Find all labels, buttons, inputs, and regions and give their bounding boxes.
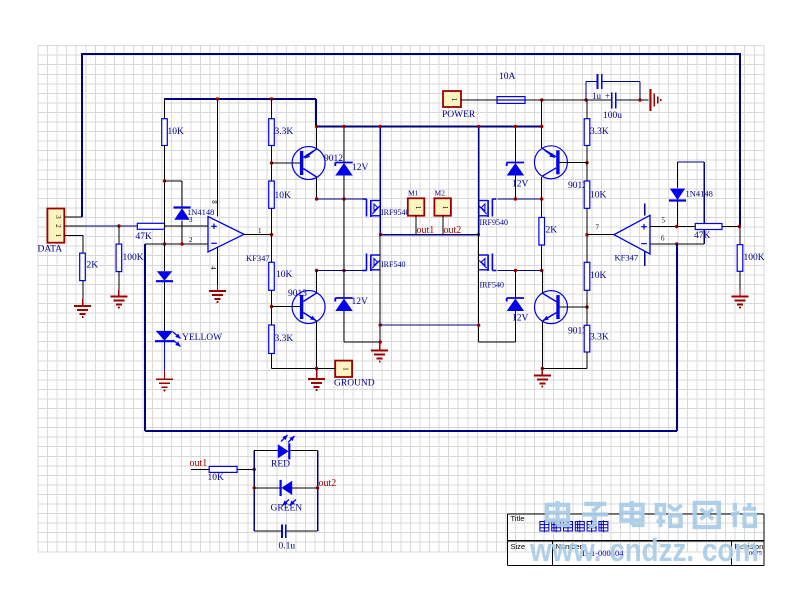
junction Q1 base node <box>270 161 273 164</box>
resistor 10K bottom <box>208 466 238 483</box>
wire U2 power stubs <box>644 203 646 266</box>
MOSFET IRF540 right <box>479 254 504 290</box>
svg-text:IRF540: IRF540 <box>480 281 504 290</box>
svg-text:7: 7 <box>596 224 600 232</box>
svg-text:Title: Title <box>511 514 525 523</box>
svg-text:100u: 100u <box>603 111 622 121</box>
wire diode to LED <box>164 282 166 331</box>
ground left bridge <box>308 369 325 392</box>
wire 3.3K to base node <box>271 146 273 182</box>
wire pin6 row <box>650 243 704 245</box>
svg-text:out1: out1 <box>417 225 435 236</box>
svg-text:0.1u: 0.1u <box>279 542 296 552</box>
wire pin3 row <box>165 225 209 227</box>
ground below 100K <box>110 290 127 309</box>
wire LED box right <box>317 450 319 531</box>
resistor 3.3K upper-right <box>584 119 609 146</box>
wire 3.3K to ground row <box>272 354 317 369</box>
junction Q3 base node <box>585 161 588 164</box>
junction pin2-10K <box>163 242 166 245</box>
ground sources <box>371 342 388 363</box>
wire LED to ground <box>164 342 166 370</box>
power ground symbol <box>651 89 662 111</box>
wire 100K right to ground <box>739 271 741 289</box>
wire pin8 power <box>217 99 219 217</box>
wire GREEN branch <box>254 487 317 489</box>
wire diode to pin5 <box>677 202 679 227</box>
junction gate2 x541 <box>540 269 543 272</box>
svg-text:2K: 2K <box>546 226 558 236</box>
svg-text:47K: 47K <box>694 231 711 241</box>
svg-text:10K: 10K <box>168 127 185 137</box>
wire fuse to +12V node <box>525 99 542 101</box>
wire +12V node to capacitors <box>542 99 586 101</box>
wire Q3 base row <box>559 162 587 164</box>
resistor 100K right <box>737 245 765 272</box>
wire Q4 collector up <box>541 271 543 293</box>
wire M1 pin <box>415 216 417 235</box>
diode 1N4148 right <box>669 189 686 201</box>
junction diode branch <box>163 179 166 182</box>
capacitor C 1u <box>598 74 602 89</box>
wire feedback loop <box>145 244 677 431</box>
wire diode branch <box>165 181 183 207</box>
junction rail x478 <box>477 125 480 128</box>
ground below 100K right <box>732 289 749 309</box>
wire 10K to U2 output <box>586 208 588 262</box>
wire 3.3K top stub <box>271 99 273 119</box>
MOSFET IRF9540 right <box>479 199 508 227</box>
wire drain column upper <box>379 127 381 235</box>
fuse 10A <box>497 97 525 104</box>
wire +12V rail lower <box>316 126 542 128</box>
svg-text:10A: 10A <box>499 72 516 82</box>
wire zener1 to gate row <box>343 176 345 200</box>
wire M2 pin <box>442 216 444 235</box>
junction Q2 base node <box>270 305 273 308</box>
wire zener4 bottom <box>514 311 516 342</box>
transistor Q4 9013 <box>535 291 568 324</box>
wire 100K stub <box>118 226 120 244</box>
junction ground node right <box>541 367 544 370</box>
svg-text:3.3K: 3.3K <box>590 127 609 137</box>
wire DATA pin2 <box>64 225 84 227</box>
junction border-47K <box>738 225 741 228</box>
junction pin6-loop <box>675 242 678 245</box>
wire gate row P-left <box>317 198 363 200</box>
title block frame <box>508 514 765 566</box>
svg-text:KF347: KF347 <box>615 253 639 263</box>
wire zener4 stub <box>514 271 516 298</box>
svg-text:10K: 10K <box>275 191 292 201</box>
resistor 10K upper-left <box>269 181 291 208</box>
svg-text:KF347: KF347 <box>246 253 270 263</box>
svg-text:1N4148: 1N4148 <box>686 189 713 199</box>
resistor 10K feedback <box>162 119 168 146</box>
junction pin2-diode <box>180 242 183 245</box>
wire 47K to border <box>722 226 740 228</box>
wire Q4 emitter down <box>541 321 543 368</box>
junction out2 node <box>316 486 319 489</box>
wire to plain diode <box>164 244 166 271</box>
wire Q2 collector up <box>316 271 318 293</box>
wire 100u row <box>586 99 649 101</box>
wire 100K right stub <box>739 227 741 245</box>
svg-text:8: 8 <box>210 200 218 204</box>
resistor 47K right <box>694 224 722 242</box>
transistor Q3 9012 <box>534 146 567 179</box>
junction cap node <box>584 98 587 101</box>
junction rail x515 <box>514 125 517 128</box>
wire out1 row <box>380 234 479 236</box>
svg-text:GREEN: GREEN <box>271 504 303 514</box>
wire GROUND pin <box>317 368 336 370</box>
wire zener3 to gate row <box>514 176 516 200</box>
wire Q1 emitter up <box>316 127 318 149</box>
wire 2K to ground <box>82 281 84 299</box>
svg-text:IRF9540: IRF9540 <box>381 208 409 217</box>
junction gate row x344 <box>342 197 345 200</box>
junction gate row x541 <box>540 197 543 200</box>
wire gate row P-right <box>498 198 542 200</box>
resistor 100K left <box>116 244 144 272</box>
svg-text:10K: 10K <box>208 473 225 483</box>
wire Q2 emitter down <box>316 322 318 369</box>
resistor 10K lower-right <box>584 262 606 290</box>
svg-text:out2: out2 <box>319 478 337 489</box>
zener D 12V upper-left <box>335 163 352 176</box>
junction source gnd x380 <box>379 340 382 343</box>
wire zener1 stub <box>343 127 345 163</box>
junction pin5-diode <box>675 225 678 228</box>
svg-text:1: 1 <box>258 227 262 235</box>
svg-text:POWER: POWER <box>442 110 476 120</box>
junction gate2 row x344 <box>342 269 345 272</box>
svg-text:RED: RED <box>271 460 290 470</box>
diode D plain <box>156 271 173 281</box>
svg-text:10K: 10K <box>590 191 607 201</box>
svg-text:M2: M2 <box>435 189 446 198</box>
svg-text:6: 6 <box>661 235 665 243</box>
resistor 3.3K upper-left <box>269 119 294 146</box>
svg-text:2: 2 <box>189 236 193 244</box>
svg-text:47K: 47K <box>136 232 153 242</box>
schematic title text <box>540 520 608 532</box>
svg-text:3: 3 <box>54 215 62 219</box>
svg-text:3.3K: 3.3K <box>275 334 294 344</box>
wire zener2 to ground row <box>344 311 380 342</box>
wire 10K to box <box>237 468 254 470</box>
resistor 2K right <box>539 218 557 246</box>
junction +12V node <box>540 98 543 101</box>
capacitor C 0.1u <box>282 525 286 539</box>
junction Q4 base node <box>585 305 588 308</box>
connector M1 <box>408 198 425 215</box>
connector M2 <box>434 198 451 215</box>
svg-text:IRF540: IRF540 <box>381 260 405 269</box>
junction rail x316 <box>315 125 318 128</box>
svg-text:9013: 9013 <box>288 289 307 299</box>
resistor 47K left <box>136 223 165 242</box>
wire left border <box>81 53 83 217</box>
connector DATA <box>47 209 64 243</box>
transistor Q1 9012 <box>292 147 325 180</box>
svg-text:12V: 12V <box>512 314 529 324</box>
junction gate row x515 <box>514 197 517 200</box>
wire cap branch <box>254 530 317 532</box>
svg-text:5: 5 <box>662 217 666 225</box>
wire gate row N-left <box>317 270 363 272</box>
junction U1 output <box>270 233 273 236</box>
svg-text:1: 1 <box>342 367 350 371</box>
zener D 12V lower-right <box>507 298 524 311</box>
connector POWER <box>443 91 461 107</box>
wire 10K top stub <box>164 99 166 119</box>
wire out1 to N-left drain <box>379 235 381 342</box>
transistor Q2 9013 <box>292 291 325 324</box>
wire 3.3K right to ground row <box>542 352 587 369</box>
wire DATA pin1 <box>64 236 83 254</box>
LED GREEN <box>281 480 296 506</box>
svg-text:1: 1 <box>414 206 422 210</box>
wire Q3 collector down <box>541 177 543 199</box>
junction source cross x478 <box>477 324 480 327</box>
junction out1 x478 <box>477 233 480 236</box>
connector GROUND <box>335 361 352 377</box>
svg-text:3: 3 <box>189 216 193 224</box>
wire Q2 base row <box>272 306 301 308</box>
resistor 3.3K lower-right <box>584 325 609 352</box>
wire 10K bottom to pin2 row <box>164 146 166 245</box>
junction U2 output <box>585 233 588 236</box>
wire 2K stubs <box>541 199 543 271</box>
wire +12V node down to rail <box>541 100 543 127</box>
wire Q1 collector down <box>316 178 318 200</box>
wire out row to N-right drain <box>479 235 516 343</box>
wire RED branch <box>254 449 317 451</box>
resistor 2K left <box>80 253 99 281</box>
svg-text:3.3K: 3.3K <box>590 333 609 343</box>
junction rail x344 <box>342 125 345 128</box>
svg-text:DATA: DATA <box>38 245 63 255</box>
wire diode anode to pin2 row <box>181 221 183 245</box>
wire source cross <box>380 324 479 326</box>
svg-text:12V: 12V <box>352 163 369 173</box>
svg-text:www. cndzz. com: www. cndzz. com <box>529 532 759 568</box>
wire right border <box>739 53 741 227</box>
junction gate row x316 <box>315 197 318 200</box>
junction gate2 x316 <box>315 269 318 272</box>
wire gate row N-right <box>498 270 542 272</box>
wire pin6 bracket <box>678 162 705 244</box>
junction LED box left2 <box>253 486 256 489</box>
svg-text:12V: 12V <box>352 297 369 307</box>
wire Q3 emitter up <box>541 127 543 149</box>
wire 3.3K to Q3 base <box>586 146 588 182</box>
wire DATA pin3 <box>64 216 82 218</box>
svg-text:out2: out2 <box>444 225 462 236</box>
wire DATA pin2 to 47K <box>84 225 137 227</box>
wire U1 output <box>244 234 272 236</box>
wire diode right stub <box>677 162 679 188</box>
svg-text:1: 1 <box>441 206 449 210</box>
wire to Q2 base node <box>271 290 273 325</box>
wire 100K to ground <box>118 272 120 290</box>
ground op-amp U1 <box>209 284 226 303</box>
junction gate2 x515 <box>514 269 517 272</box>
svg-text:M1: M1 <box>408 189 419 198</box>
resistor 10K upper-right <box>584 181 606 208</box>
svg-text:10K: 10K <box>276 270 293 280</box>
junction ground node left <box>315 367 318 370</box>
junction out1 x380 <box>379 233 382 236</box>
svg-text:2: 2 <box>54 224 62 228</box>
junction rail x541 <box>540 125 543 128</box>
wire 1u branch <box>586 82 640 101</box>
wire Q4 base row <box>559 306 587 308</box>
zener D 12V upper-right <box>507 163 524 176</box>
MOSFET IRF540 left <box>363 254 406 272</box>
ground below 2K <box>74 299 91 318</box>
wire right drain column <box>478 127 480 235</box>
wire top border net DATA3 <box>82 53 740 55</box>
wire LED box left <box>253 450 255 531</box>
wire zener column mid <box>343 199 345 271</box>
ground right bridge <box>534 369 551 388</box>
wire pin5 row <box>650 226 695 228</box>
zener D 12V lower-left <box>335 298 352 311</box>
junction pin8 rail <box>216 97 219 100</box>
junction ground cap node <box>638 98 641 101</box>
svg-text:YELLOW: YELLOW <box>182 333 222 343</box>
op-amp U1 KF347 <box>208 217 270 263</box>
svg-text:out1: out1 <box>190 458 208 469</box>
svg-text:3.3K: 3.3K <box>275 127 294 137</box>
svg-text:Size: Size <box>511 542 526 551</box>
junction LED box left1 <box>253 468 256 471</box>
wire out1 lead <box>191 468 209 470</box>
svg-text:2K: 2K <box>87 261 99 271</box>
MOSFET IRF9540 left <box>363 199 410 217</box>
capacitor C 100u <box>612 93 616 109</box>
svg-text:IRF9540: IRF9540 <box>480 218 508 227</box>
junction rail x380 <box>379 125 382 128</box>
junction 100K top <box>117 224 120 227</box>
wire 3.3K right top stub <box>586 100 588 119</box>
wire +12V rail upper <box>164 99 316 127</box>
wire Q1 base row <box>272 162 301 164</box>
svg-text:100K: 100K <box>123 253 144 263</box>
resistor 10K lower-left <box>269 262 293 290</box>
LED RED <box>278 435 295 459</box>
wire 10K to Q4 base <box>586 290 588 325</box>
junction rail-3.3K <box>270 97 273 100</box>
diode 1N4148 left <box>174 208 191 220</box>
svg-text:1: 1 <box>450 98 458 102</box>
wire 10K to output node <box>271 208 273 262</box>
svg-text:4: 4 <box>209 266 217 270</box>
junction source cross x380 <box>379 323 382 326</box>
svg-text:10K: 10K <box>590 271 607 281</box>
watermark <box>529 501 759 568</box>
wire pin2 row <box>145 243 208 245</box>
wire zener2 stub <box>343 271 345 298</box>
ground below YELLOW <box>156 370 173 391</box>
svg-text:100K: 100K <box>744 253 765 263</box>
wire POWER to fuse <box>461 99 497 101</box>
svg-text:GROUND: GROUND <box>334 379 375 389</box>
svg-text:1: 1 <box>54 234 62 238</box>
wire U2 output <box>587 234 614 236</box>
wire pin4 ground stub <box>217 247 219 284</box>
svg-text:12V: 12V <box>512 180 529 190</box>
LED YELLOW <box>155 331 181 347</box>
wire zener3 stub <box>514 127 516 163</box>
op-amp U2 KF347 <box>614 215 650 262</box>
resistor 3.3K lower-left <box>269 325 294 354</box>
